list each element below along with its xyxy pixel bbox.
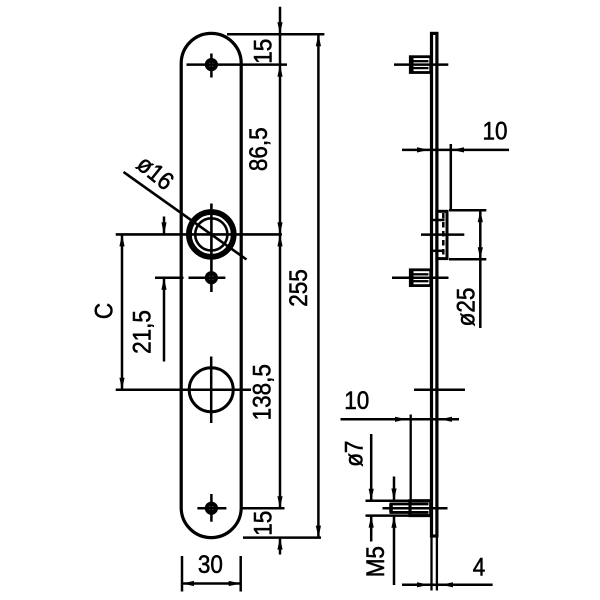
svg-text:15: 15: [249, 511, 277, 536]
side view centerline of handle hole: [414, 388, 465, 391]
svg-text:ø7: ø7: [340, 441, 368, 467]
dimension line 255: [317, 34, 320, 537]
svg-text:255: 255: [285, 269, 313, 307]
svg-text:86,5: 86,5: [245, 127, 273, 171]
hole D16 with D25 boss ring: [116, 204, 282, 293]
svg-text:30: 30: [198, 551, 223, 579]
svg-text:ø25: ø25: [453, 288, 481, 327]
dimension 30: [182, 556, 241, 592]
svg-text:M5: M5: [362, 546, 390, 577]
boss hidden hole lines: [433, 213, 445, 257]
bottom extension line: [243, 536, 321, 539]
svg-text:21,5: 21,5: [128, 310, 156, 354]
dimension 10 top right: [402, 144, 509, 211]
dimension 10 lower right: [341, 415, 460, 500]
side view plate: [432, 33, 437, 536]
top extension line: [227, 33, 324, 36]
side view centerline of D16: [421, 233, 464, 236]
dimension M5: [393, 477, 396, 586]
dimension 4: [402, 584, 493, 587]
svg-text:15: 15: [249, 39, 277, 64]
stud middle side view: [392, 270, 449, 286]
svg-text:C: C: [90, 303, 118, 319]
leader line for D16: [124, 172, 247, 260]
svg-text:10: 10: [344, 387, 369, 415]
stud bottom side view with M5 tip: [366, 501, 448, 516]
stud top side view: [394, 57, 448, 73]
dimension D25: [449, 210, 486, 328]
side view plate extension lines for 4: [432, 538, 437, 591]
boss side view: [437, 211, 447, 258]
dimension D7: [370, 434, 373, 542]
svg-text:4: 4: [473, 554, 486, 582]
svg-text:10: 10: [482, 117, 507, 145]
middle screw hole: [155, 273, 225, 282]
plate outline front view: [181, 33, 241, 537]
dimension column 15 / 86,5 / 138,5: [279, 7, 282, 555]
dimension line C: [121, 234, 124, 389]
bottom screw hole: [197, 494, 284, 522]
svg-text:138,5: 138,5: [248, 364, 276, 420]
top screw hole: [187, 54, 288, 78]
lower handle hole: [116, 357, 251, 424]
dimension 21,5: [163, 217, 166, 362]
